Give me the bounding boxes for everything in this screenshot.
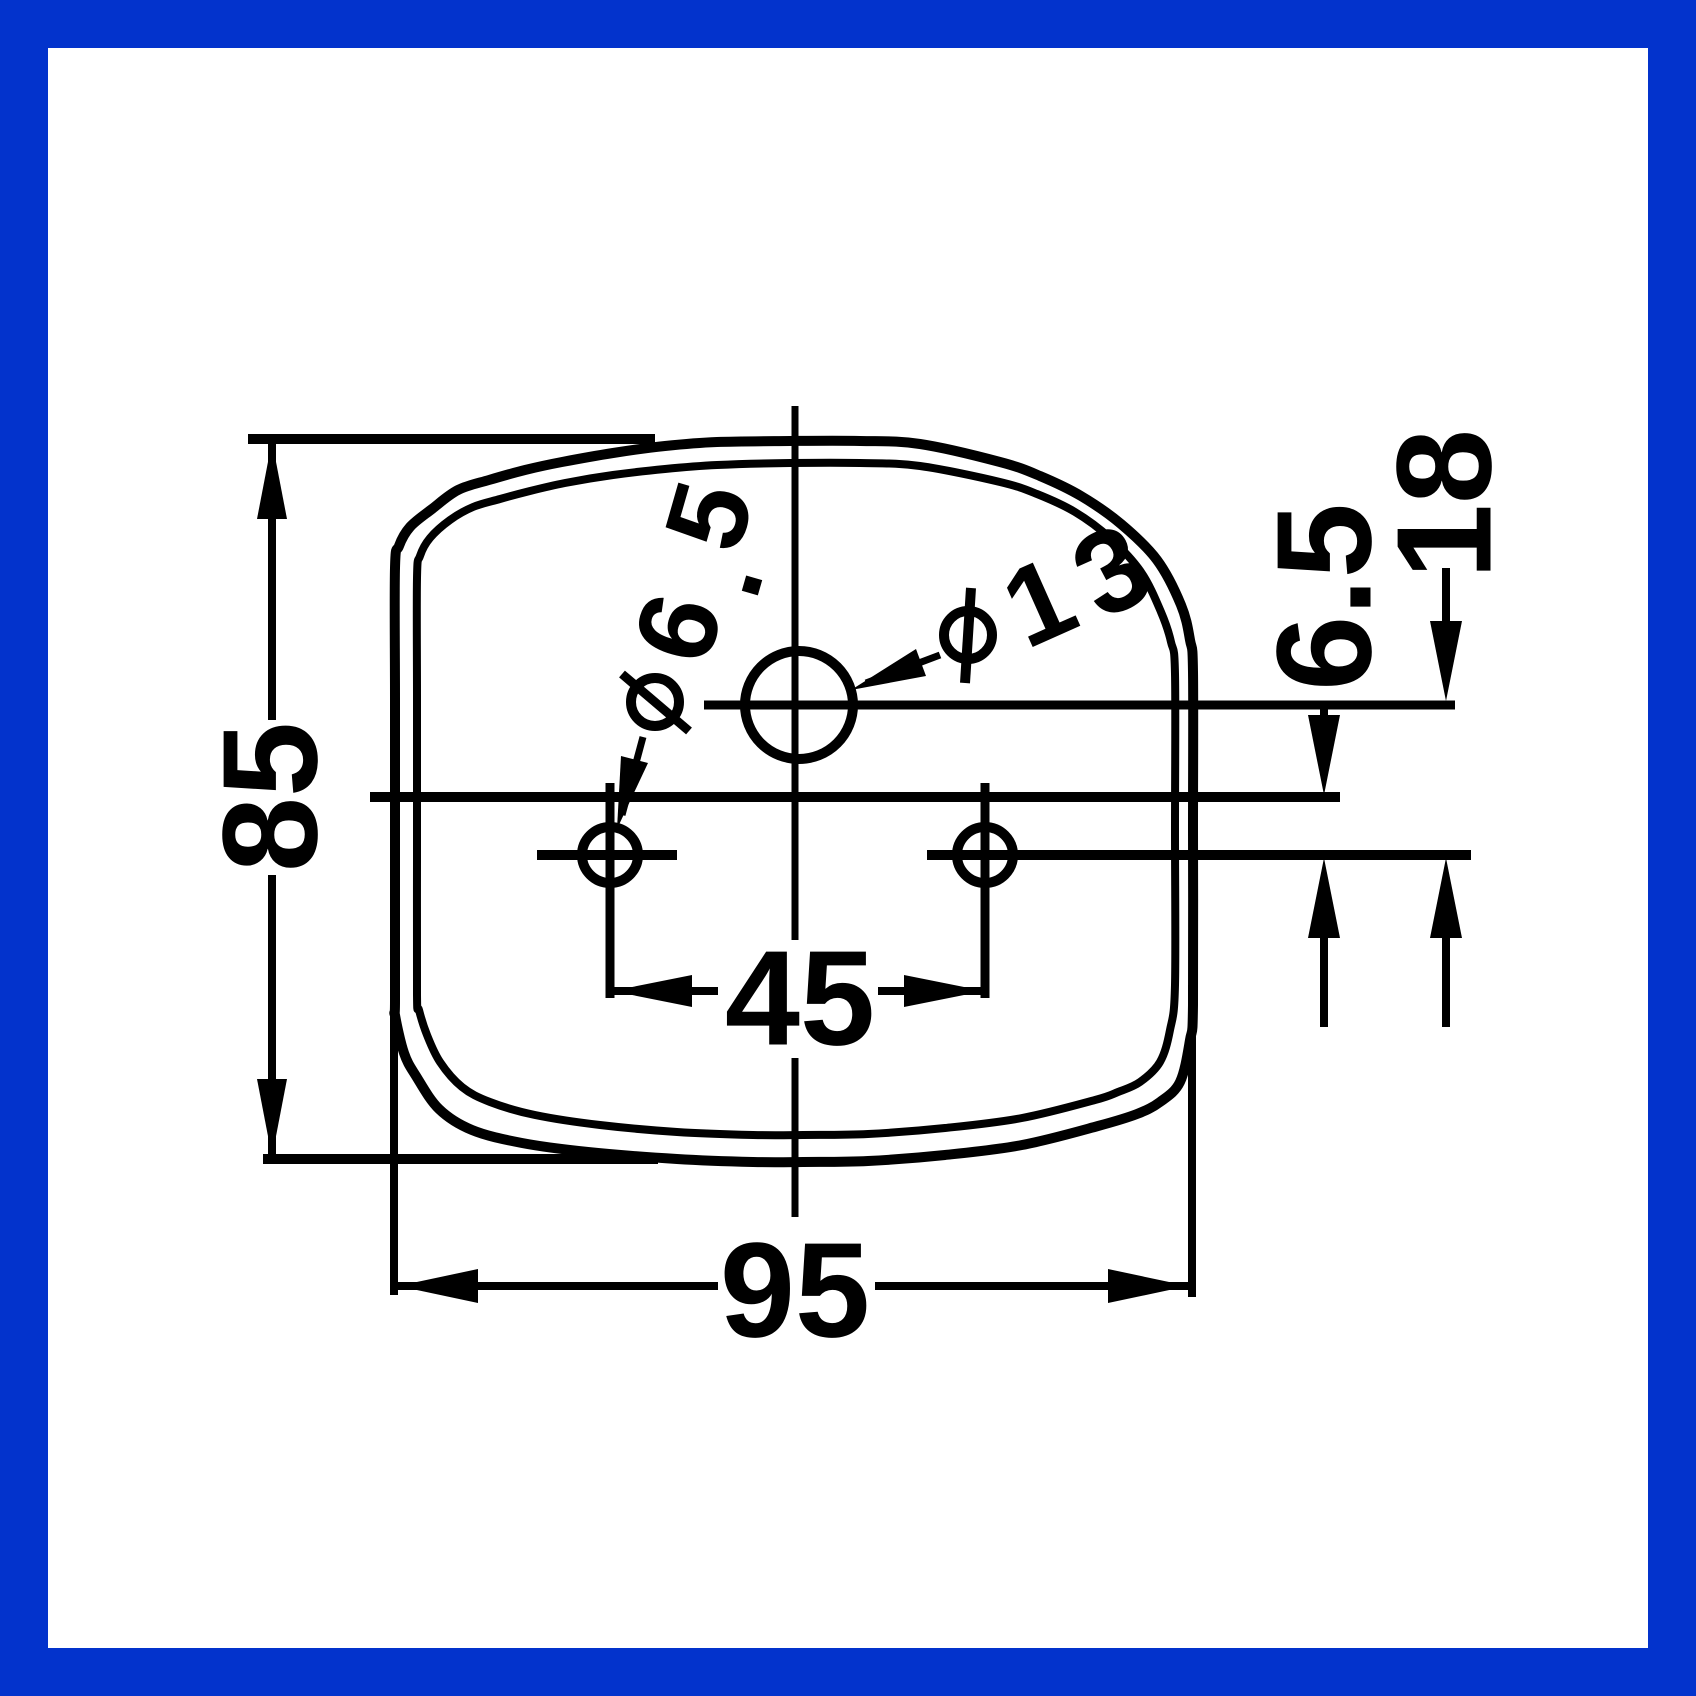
svg-text:85: 85 bbox=[195, 722, 346, 872]
svg-text:95: 95 bbox=[720, 1215, 870, 1366]
svg-text:45: 45 bbox=[725, 923, 875, 1074]
svg-text:18: 18 bbox=[1369, 429, 1520, 579]
